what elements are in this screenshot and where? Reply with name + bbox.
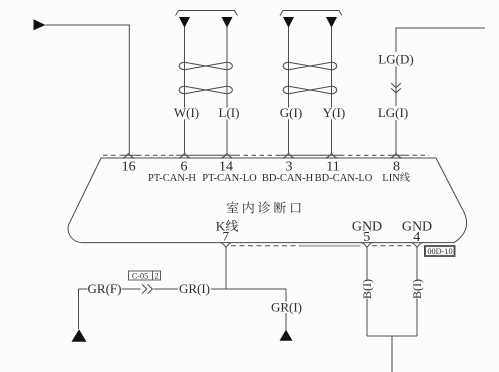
- svg-text:GR(I): GR(I): [271, 300, 302, 315]
- wire W(I): [184, 27, 186, 153]
- twisted-pair symbol 2a: [289, 62, 332, 70]
- off-page arrow (top-left): [34, 19, 46, 30]
- wire down-mid GR(I): [285, 289, 287, 330]
- wire to pin 16: [46, 25, 130, 153]
- pin 8 terminal: [391, 153, 402, 157]
- svg-text:5: 5: [363, 230, 370, 245]
- svg-text:16: 16: [122, 159, 136, 174]
- svg-text:GR(F): GR(F): [88, 281, 122, 296]
- wire Y(I): [331, 27, 333, 153]
- connector name 室内诊断口: [227, 202, 239, 213]
- mating line (top, dashed/solid): [103, 154, 429, 156]
- off-page arrow Y: [326, 17, 337, 28]
- svg-text:GR(I): GR(I): [179, 281, 210, 296]
- connector code box 00D-10: [425, 246, 456, 257]
- twisted-pair symbol 1a: [185, 62, 228, 70]
- svg-text:PT-CAN-LO: PT-CAN-LO: [202, 173, 257, 184]
- svg-text:BD-CAN-LO: BD-CAN-LO: [315, 173, 373, 184]
- inline connector chevrons C-05: [142, 284, 152, 293]
- pin 7 terminal: [221, 243, 232, 248]
- svg-text:PT-CAN-H: PT-CAN-H: [148, 173, 196, 184]
- diagnostic connector 室内诊断口 outline: [68, 158, 466, 243]
- wire from pin 7: [225, 247, 227, 289]
- GR horizontal wire: [79, 288, 287, 290]
- off-page arrow (bottom-mid): [280, 330, 293, 341]
- harness bracket (pair 2): [280, 11, 342, 16]
- faded mating line segment: [300, 245, 360, 247]
- pin 14 terminal: [222, 153, 233, 157]
- pin 3 terminal: [283, 153, 294, 157]
- wire B(I) from pin 5: [366, 247, 368, 336]
- svg-text:4: 4: [413, 230, 420, 245]
- pin 5 terminal: [362, 243, 373, 248]
- off-page arrow G: [283, 17, 294, 28]
- wire LG / LIN feed: [396, 28, 485, 153]
- pin 11 terminal: [326, 153, 337, 157]
- wire B(I) from pin 4: [416, 247, 418, 336]
- svg-text:LG(I): LG(I): [378, 105, 408, 120]
- svg-text:B(I): B(I): [410, 279, 424, 299]
- twisted-pair symbol 1b: [185, 86, 228, 94]
- label B(I) pin4: [410, 279, 424, 299]
- harness bracket (pair 1): [176, 11, 238, 16]
- connector code box C-05 2: [129, 271, 161, 280]
- svg-text:LIN: LIN: [382, 173, 400, 184]
- wire L(I): [226, 27, 228, 153]
- svg-text:2: 2: [154, 271, 158, 280]
- svg-text:L(I): L(I): [219, 105, 240, 120]
- wire G(I): [288, 27, 290, 153]
- svg-text:B(I): B(I): [360, 279, 374, 299]
- pin 16 terminal: [123, 153, 134, 157]
- svg-text:00D-10: 00D-10: [427, 247, 452, 256]
- svg-text:LG(D): LG(D): [378, 52, 413, 67]
- pin 4 terminal: [412, 243, 423, 248]
- off-page arrow L: [222, 17, 233, 28]
- svg-text:7: 7: [223, 229, 230, 244]
- twisted-pair symbol 2b: [289, 86, 332, 94]
- svg-text:C-05: C-05: [132, 271, 148, 280]
- svg-text:G(I): G(I): [280, 105, 302, 120]
- GND join wire: [367, 336, 417, 372]
- pin 6 terminal: [179, 153, 190, 157]
- svg-text:Y(I): Y(I): [323, 105, 345, 120]
- inline connector chevrons on LG wire: [391, 83, 401, 93]
- off-page arrow (bottom-left): [72, 329, 87, 342]
- svg-text:BD-CAN-H: BD-CAN-H: [262, 173, 314, 184]
- mating line (bottom, dashed): [231, 245, 412, 247]
- wire down-left to ground arrow: [78, 289, 80, 329]
- svg-text:W(I): W(I): [174, 105, 199, 120]
- off-page arrow W: [179, 17, 190, 28]
- label B(I) pin5: [360, 279, 374, 299]
